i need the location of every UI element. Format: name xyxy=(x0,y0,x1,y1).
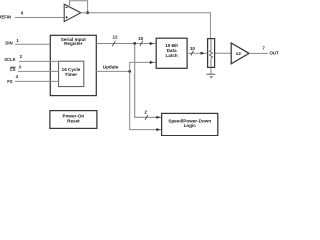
wire DAC to x2 amp xyxy=(215,52,231,54)
wire SCLK xyxy=(19,60,59,62)
svg-text:DIN: DIN xyxy=(5,40,12,45)
svg-text:Update: Update xyxy=(103,64,119,69)
Speed/Power-Down Logic box xyxy=(162,113,218,135)
10-Bit Data Latch box xyxy=(156,38,187,68)
bus slash 12 xyxy=(112,41,115,46)
arrow into speed/power-down upper xyxy=(156,116,160,119)
wire Update from register xyxy=(96,70,129,72)
DAC resistor string R1 xyxy=(208,39,215,68)
Serial Input Register box xyxy=(50,35,96,95)
bus slash 10 xyxy=(140,41,143,46)
svg-text:10: 10 xyxy=(190,46,196,51)
node bus junction xyxy=(133,42,136,45)
wire update up-branch to latch xyxy=(130,62,156,71)
bus slash 2 xyxy=(145,115,148,120)
node buffer output junction xyxy=(86,11,89,14)
wire DIN xyxy=(15,43,51,45)
ground xyxy=(206,74,215,78)
arrow into speed/power-down lower xyxy=(156,128,160,131)
svg-text:Timer: Timer xyxy=(65,72,78,77)
wire amp to OUT xyxy=(249,52,268,54)
arrow into latch lower xyxy=(150,61,154,64)
op-amp x2 output amplifier xyxy=(231,43,249,64)
svg-text:Reset: Reset xyxy=(67,119,80,124)
wire bus down to speed/power-down logic xyxy=(135,44,162,118)
svg-text:12: 12 xyxy=(112,35,118,40)
svg-text:Latch: Latch xyxy=(165,53,177,58)
svg-text:OUT: OUT xyxy=(270,51,280,56)
node update junction xyxy=(128,70,131,73)
svg-text:2: 2 xyxy=(144,109,147,114)
arrow into DAC xyxy=(201,52,205,55)
svg-text:x2: x2 xyxy=(236,51,242,56)
wire latch to DAC xyxy=(187,52,207,54)
wire buffer output to DAC top xyxy=(81,13,211,39)
arrow into latch upper xyxy=(150,42,154,45)
wire CS xyxy=(18,70,59,72)
wire FS xyxy=(15,80,59,82)
16 Cycle Timer box xyxy=(59,61,84,86)
svg-text:Register: Register xyxy=(64,41,83,46)
op-amp U1 reference buffer xyxy=(64,4,81,21)
svg-text:10: 10 xyxy=(138,36,144,41)
wire feedback loop xyxy=(70,1,88,13)
svg-text:REFIN: REFIN xyxy=(0,15,11,20)
wire DAC to ground xyxy=(210,68,212,74)
wire update down-branch to speed/power-down xyxy=(130,71,162,129)
svg-text:FS: FS xyxy=(7,79,13,84)
wire 12-bit bus register to latch xyxy=(96,43,156,45)
wire REFIN to buffer xyxy=(15,17,64,19)
Power-On Reset box xyxy=(50,111,97,129)
svg-text:SCLK: SCLK xyxy=(4,57,15,62)
svg-text:Logic: Logic xyxy=(184,123,197,128)
bus slash 10 xyxy=(191,51,194,56)
svg-text:CS: CS xyxy=(10,67,16,72)
